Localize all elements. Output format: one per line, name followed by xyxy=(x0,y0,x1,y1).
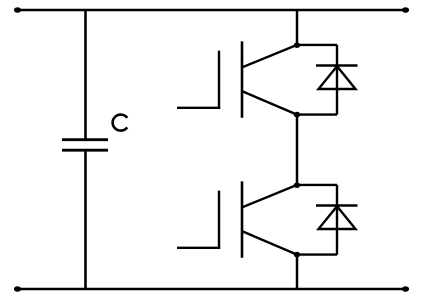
node terminal dot bottom-right (DC- terminal) xyxy=(402,286,409,292)
body bar xyxy=(241,41,244,117)
body bar xyxy=(241,181,244,257)
wire top rail to Q1 collector node xyxy=(296,10,299,45)
emitter slant xyxy=(243,231,298,254)
label C (capacitor value label) xyxy=(113,115,128,131)
wire top DC+ rail xyxy=(17,9,406,12)
wire D2 branch vertical xyxy=(336,185,338,255)
transistor Q2 (lower IGBT) xyxy=(177,181,297,257)
node terminal dot top-right (DC+ terminal) xyxy=(402,7,409,13)
diode D1 (anti-parallel, upper) xyxy=(316,66,358,90)
transistor Q1 (upper IGBT) xyxy=(177,41,297,117)
wire capacitor branch lower (C bottom plate to bottom rail) xyxy=(84,151,87,289)
node junction dot Q1 emitter xyxy=(294,112,300,118)
wire Q2 emitter node to bottom rail xyxy=(296,255,299,289)
cathode bar xyxy=(316,204,358,206)
anode triangle xyxy=(319,206,356,229)
node junction dot Q2 emitter xyxy=(294,252,300,258)
cathode bar xyxy=(316,64,358,66)
wire bottom DC- rail xyxy=(17,288,406,291)
gate bar vertical xyxy=(218,51,220,109)
node junction dot Q1 collector xyxy=(294,42,300,48)
gate lead horizontal xyxy=(177,247,220,249)
collector slant xyxy=(243,185,298,207)
node terminal dot top-left (DC+ terminal) xyxy=(14,7,21,13)
gate lead horizontal xyxy=(177,107,220,109)
wire D1 anode to Q1 emitter node xyxy=(297,113,337,115)
wire Q2 collector node to D2 cathode branch xyxy=(297,184,337,186)
wire D1 branch vertical xyxy=(336,45,338,115)
wire capacitor branch upper (top rail to C top plate) xyxy=(84,10,87,139)
wire D2 anode to Q2 emitter node xyxy=(297,253,337,255)
gate bar vertical xyxy=(218,191,220,249)
collector slant xyxy=(243,45,298,67)
capacitor C xyxy=(62,140,108,151)
wire Q1 collector node to D1 cathode branch xyxy=(297,44,337,46)
node junction dot Q2 collector xyxy=(294,182,300,188)
node terminal dot bottom-left (DC- terminal) xyxy=(14,286,21,292)
diode D2 (anti-parallel, lower) xyxy=(316,206,358,230)
wire midpoint (Q1 emitter to Q2 collector) xyxy=(296,115,299,185)
anode triangle xyxy=(319,66,356,89)
emitter slant xyxy=(243,91,298,114)
